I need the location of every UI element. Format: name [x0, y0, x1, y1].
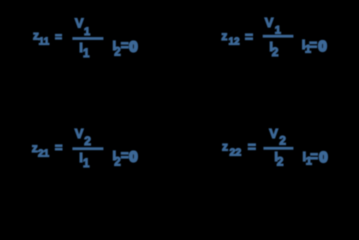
- svg-text:V: V: [75, 16, 84, 31]
- svg-text:=: =: [121, 38, 129, 53]
- fraction bar: [72, 37, 103, 40]
- svg-text:2: 2: [279, 134, 286, 148]
- equation z11: [33, 16, 138, 60]
- svg-text:=: =: [121, 148, 129, 163]
- svg-text:12: 12: [229, 37, 241, 48]
- svg-text:V: V: [269, 126, 278, 141]
- svg-text:2: 2: [84, 134, 91, 148]
- svg-text:0: 0: [318, 38, 326, 55]
- svg-text:2: 2: [114, 156, 120, 168]
- svg-text:1: 1: [83, 48, 90, 60]
- svg-text:0: 0: [319, 149, 327, 166]
- svg-text:22: 22: [230, 146, 242, 158]
- svg-text:1: 1: [84, 26, 90, 38]
- svg-text:21: 21: [38, 148, 50, 159]
- svg-text:=: =: [55, 140, 63, 155]
- svg-text:1: 1: [83, 158, 90, 170]
- svg-text:=: =: [245, 29, 253, 45]
- equation z22: [222, 126, 328, 169]
- equation z12: [221, 15, 326, 59]
- svg-text:0: 0: [129, 39, 137, 56]
- svg-text:=: =: [55, 30, 62, 44]
- fraction bar: [72, 147, 103, 150]
- svg-text:2: 2: [272, 45, 279, 59]
- svg-text:z: z: [221, 29, 227, 43]
- svg-text:=: =: [309, 37, 317, 52]
- svg-text:z: z: [222, 140, 228, 154]
- svg-text:0: 0: [129, 149, 137, 166]
- equation z21: [32, 126, 138, 170]
- svg-text:2: 2: [114, 46, 120, 58]
- svg-text:V: V: [75, 126, 84, 141]
- svg-text:z: z: [32, 141, 38, 155]
- svg-text:11: 11: [39, 36, 50, 47]
- fraction bar: [263, 147, 293, 150]
- svg-text:V: V: [265, 15, 274, 30]
- fraction bar: [263, 35, 294, 38]
- svg-text:=: =: [248, 138, 256, 154]
- svg-text:2: 2: [277, 155, 284, 169]
- svg-text:=: =: [310, 149, 318, 164]
